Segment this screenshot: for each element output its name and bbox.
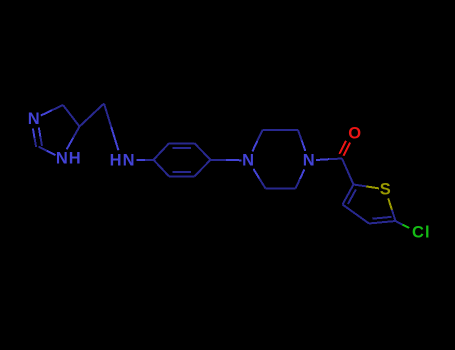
double bond BR-BL <box>169 175 195 177</box>
bond C5-CH2 <box>80 104 105 127</box>
svg-text:N: N <box>242 151 254 169</box>
double bond C=O <box>343 143 350 156</box>
double bond TL-TR <box>169 142 195 144</box>
bond T5-Cl <box>396 221 403 225</box>
bond phenyl-Npip <box>211 159 227 161</box>
svg-text:HN: HN <box>110 151 136 169</box>
bond CH2-NH <box>104 104 111 127</box>
svg-text:Cl: Cl <box>412 223 431 241</box>
double bond C2=N3 <box>40 137 42 146</box>
bond R-BR <box>195 160 211 177</box>
bond N4-BR <box>300 169 304 179</box>
svg-text:N: N <box>28 110 40 128</box>
svg-text:S: S <box>380 180 391 198</box>
bond TR-N4 <box>298 130 302 141</box>
bond L-TL <box>154 143 170 160</box>
bond T4-T3 <box>343 205 370 224</box>
svg-text:NH: NH <box>56 149 82 167</box>
bond BL-N1 <box>259 179 265 189</box>
double bond T3=T2 <box>343 185 354 205</box>
bond BR-BL <box>266 187 296 189</box>
bond N1-TL <box>252 141 257 152</box>
bond NH-phenyl <box>137 159 145 161</box>
bond BL-L <box>154 160 170 177</box>
svg-text:O: O <box>348 125 361 143</box>
bond C5-N1 <box>73 127 79 138</box>
bond N3-C4 <box>41 110 52 115</box>
bond C4-C5 <box>63 105 80 127</box>
svg-text:N: N <box>303 151 315 169</box>
bond TL-TR <box>263 129 299 131</box>
bond C-thiophene <box>342 159 354 185</box>
double bond T5=T4 <box>369 221 396 224</box>
bond N1-C2 <box>47 151 56 155</box>
bond S-T5 <box>388 198 392 209</box>
bond TR-R <box>195 143 211 160</box>
bond N4-carbonylC <box>316 158 329 161</box>
bond T2-S <box>354 185 367 187</box>
